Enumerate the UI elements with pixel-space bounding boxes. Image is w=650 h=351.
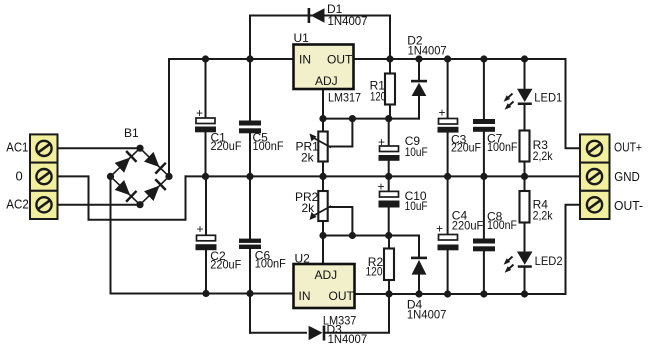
svg-text:100nF: 100nF <box>255 257 286 271</box>
wire C1 top lead <box>205 59 207 118</box>
diode D1 1N4007 <box>308 2 368 28</box>
screw OUT+ <box>587 141 602 156</box>
op-amp U2 regulator LM337 box <box>294 252 357 328</box>
screw GND <box>587 169 602 184</box>
capacitor C4 220uF electrolytic <box>436 209 483 251</box>
svg-text:120: 120 <box>366 264 383 278</box>
wire D4 lower lead <box>418 275 420 294</box>
wire R1 top lead <box>389 59 391 74</box>
wire C10 bottom lead <box>388 208 390 236</box>
wire PR2 wiper link <box>330 207 352 236</box>
resistor R4 2,2k <box>520 191 554 223</box>
bridge diode bottom-left <box>114 180 137 203</box>
wire AC2 to bridge bottom <box>58 204 141 206</box>
wire top rail U1 OUT to corner <box>354 58 566 60</box>
wire C3 top lead <box>447 59 449 119</box>
wire C8 bottom lead <box>483 251 485 294</box>
bridge diode top-right <box>144 151 167 174</box>
svg-text:OUT-: OUT- <box>614 198 643 213</box>
screw AC2 <box>36 197 51 212</box>
resistor R1 120 <box>370 74 395 105</box>
wire D3 anode lead <box>250 332 306 334</box>
terminal block output <box>580 134 610 219</box>
junction U1 ADJ and PR1 top <box>319 115 326 122</box>
junction D4 on OUT- rail <box>415 290 422 297</box>
LED2 light arrows <box>504 257 514 273</box>
bridge rectifier B1 diamond edges <box>111 148 170 205</box>
junction PR1 wiper on ADJ rail <box>349 115 356 122</box>
wire D3 cathode lead riser <box>325 294 389 333</box>
svg-text:IN: IN <box>299 289 311 303</box>
junction D2 on OUT rail <box>415 55 422 62</box>
resistor R2 120 <box>366 249 395 281</box>
op-amp U1 regulator LM317 box <box>294 31 362 105</box>
junction C1 top on positive rail <box>202 55 209 62</box>
wire C5 top lead <box>249 59 251 121</box>
diode D2 1N4007 <box>407 34 447 96</box>
svg-text:ADJ: ADJ <box>315 268 338 282</box>
junction PR1 PR2 on ground rail <box>319 173 326 180</box>
screw AC1 <box>36 141 51 156</box>
resistor R3 2,2k <box>520 131 554 164</box>
junction C3 C4 on ground rail <box>444 173 451 180</box>
junction C1 C2 on ground rail <box>202 173 209 180</box>
wire ADJ rail bottom <box>323 235 419 237</box>
svg-text:0: 0 <box>16 169 23 184</box>
capacitor C9 10uF electrolytic <box>378 134 428 161</box>
svg-text:1N4007: 1N4007 <box>328 14 368 28</box>
wire C7 bottom lead <box>483 132 485 177</box>
wire C2 bottom lead <box>205 250 207 293</box>
svg-text:+: + <box>196 106 203 120</box>
wire C4 top lead <box>447 176 449 234</box>
wire D1 bypass branch <box>250 16 390 60</box>
wire LED1 top lead <box>524 59 526 89</box>
wire bottom rail into U2 IN <box>111 293 294 295</box>
junction R2 top and C10 bottom on lower ADJ rail <box>385 232 392 239</box>
capacitor C5 100nF <box>239 121 284 153</box>
junction R2 bottom and D3 return on OUT- rail <box>385 290 392 297</box>
wire PR1 wiper link <box>330 119 352 147</box>
junction R1 bottom and C9 top on ADJ rail <box>385 115 392 122</box>
svg-text:AC2: AC2 <box>6 196 29 211</box>
capacitor C10 10uF electrolytic <box>378 180 428 214</box>
svg-text:220uF: 220uF <box>451 141 481 155</box>
trimmer PR2 2k <box>295 190 331 221</box>
wire ADJ rail top <box>323 118 419 120</box>
junction C6 and D3 branch on negative input rail <box>246 290 253 297</box>
capacitor C3 220uF electrolytic <box>438 106 482 155</box>
svg-text:10uF: 10uF <box>405 199 428 213</box>
junction R3 R4 on ground rail <box>521 173 528 180</box>
wire C9 bottom lead <box>388 161 390 176</box>
bridge diode bottom-right <box>144 178 167 201</box>
svg-text:220uF: 220uF <box>211 139 242 153</box>
wire PR2 top lead <box>322 176 324 191</box>
junction LED2 on OUT- rail <box>521 290 528 297</box>
svg-text:2,2k: 2,2k <box>533 149 554 163</box>
junction C9 C10 on ground rail <box>385 173 392 180</box>
wire R4 top lead <box>524 176 526 191</box>
svg-text:100nF: 100nF <box>487 218 517 232</box>
junction C7 on OUT rail <box>480 55 487 62</box>
wire AC1 to bridge top <box>58 147 141 149</box>
svg-text:OUT+: OUT+ <box>614 140 642 155</box>
svg-text:LED1: LED1 <box>534 90 562 104</box>
junction U2 ADJ and PR2 bottom <box>319 232 326 239</box>
svg-text:2k: 2k <box>301 151 315 165</box>
capacitor C2 220uF electrolytic <box>196 222 242 271</box>
bridge diode top-left <box>114 150 137 173</box>
wire C3 bottom lead <box>447 131 449 176</box>
svg-text:+: + <box>197 222 204 236</box>
svg-text:2,2k: 2,2k <box>533 209 554 223</box>
capacitor C7 100nF <box>473 119 518 154</box>
svg-text:120: 120 <box>370 90 386 104</box>
wire C1 bottom lead <box>205 132 207 177</box>
wire top rail into U1 IN <box>169 58 294 60</box>
capacitor C6 100nF <box>239 239 286 271</box>
svg-text:220uF: 220uF <box>210 257 241 271</box>
svg-text:+: + <box>378 135 385 149</box>
svg-text:IN: IN <box>299 53 311 67</box>
svg-text:1N4007: 1N4007 <box>328 332 368 346</box>
svg-text:1N4007: 1N4007 <box>407 307 447 321</box>
diode D3 1N4007 <box>309 323 368 347</box>
wire R4 to LED2 lead <box>524 223 526 252</box>
wire D2 upper lead <box>418 59 420 81</box>
wire C2 top lead <box>205 176 207 235</box>
terminal block AC input <box>30 134 58 219</box>
LED1 light arrows <box>504 94 514 110</box>
wire PR1 bottom lead <box>322 162 324 177</box>
screw 0 <box>36 169 51 184</box>
junction C4 on OUT- rail <box>444 290 451 297</box>
junction C5 and D1 branch on positive rail <box>246 55 253 62</box>
wire OUT- rise to terminal <box>566 205 581 294</box>
svg-text:100nF: 100nF <box>487 140 518 154</box>
screw OUT- <box>587 197 602 212</box>
svg-text:B1: B1 <box>124 126 139 140</box>
wire C4 bottom lead <box>447 251 449 294</box>
wire bridge minus output riser <box>110 176 112 293</box>
wire U1 ADJ pin <box>322 89 324 119</box>
junction D1 return and R1 on OUT rail <box>386 55 393 62</box>
node bridge right <box>165 173 172 180</box>
wire C6 bottom lead <box>249 249 251 294</box>
wire D4 upper lead <box>418 236 420 257</box>
wire C9 top lead <box>388 119 390 146</box>
junction C8 on OUT- rail <box>480 290 487 297</box>
svg-text:LM317: LM317 <box>328 91 361 105</box>
junction PR2 wiper on lower ADJ rail <box>349 232 356 239</box>
wire R2 bottom lead <box>388 280 390 294</box>
svg-text:OUT: OUT <box>329 289 355 303</box>
wire 0 terminal jog to ground rail <box>58 176 186 219</box>
wire R2 top lead <box>388 236 390 249</box>
wire LED1 to R3 lead <box>524 105 526 131</box>
wire C5 bottom lead <box>249 133 251 176</box>
wire C10 top lead <box>388 176 390 191</box>
wire D2 lower lead <box>418 96 420 119</box>
svg-text:1N4007: 1N4007 <box>408 43 447 57</box>
svg-text:220uF: 220uF <box>452 219 484 233</box>
wire ground rail <box>186 175 581 177</box>
svg-text:+: + <box>439 106 446 120</box>
trimmer PR1 2k <box>296 132 332 165</box>
LED1 <box>517 89 563 105</box>
svg-text:OUT: OUT <box>327 53 353 67</box>
node bridge bottom <box>136 201 143 208</box>
junction C2 on negative input rail <box>202 290 209 297</box>
wire LED2 bottom lead <box>524 269 526 295</box>
wire R1 bottom lead <box>389 105 391 119</box>
wire C6 top lead <box>249 176 251 238</box>
svg-text:LED2: LED2 <box>535 254 563 268</box>
svg-text:+: + <box>436 222 443 236</box>
wire OUT+ drop to terminal <box>566 59 581 148</box>
node bridge left <box>107 173 114 180</box>
svg-text:100nF: 100nF <box>253 139 284 153</box>
wire C8 top lead <box>483 176 485 238</box>
wire R3 bottom lead <box>524 162 526 177</box>
wire C7 top lead <box>483 59 485 119</box>
capacitor C1 220uF electrolytic <box>195 106 242 153</box>
svg-text:U2: U2 <box>295 252 311 266</box>
junction C3 on OUT rail <box>444 55 451 62</box>
LED2 <box>517 252 563 268</box>
svg-text:ADJ: ADJ <box>315 74 338 88</box>
wire D3 branch down <box>249 294 251 333</box>
diode D4 1N4007 <box>407 257 447 322</box>
svg-text:+: + <box>378 180 385 194</box>
junction C7 C8 on ground rail <box>480 173 487 180</box>
svg-text:2k: 2k <box>302 201 316 215</box>
wire PR1 top lead <box>322 119 324 132</box>
svg-text:AC1: AC1 <box>6 139 28 154</box>
capacitor C8 100nF <box>473 210 517 252</box>
junction LED1 on OUT rail <box>521 55 528 62</box>
node bridge top <box>136 145 143 152</box>
svg-text:10uF: 10uF <box>405 145 428 159</box>
svg-text:GND: GND <box>614 169 640 184</box>
wire bridge plus output riser <box>168 59 170 176</box>
wire U2 ADJ pin <box>322 236 324 265</box>
wire U2 OUT rail <box>355 293 566 295</box>
svg-text:U1: U1 <box>294 31 310 45</box>
wire PR2 bottom lead <box>322 221 324 236</box>
junction C5 C6 on ground rail <box>246 173 253 180</box>
